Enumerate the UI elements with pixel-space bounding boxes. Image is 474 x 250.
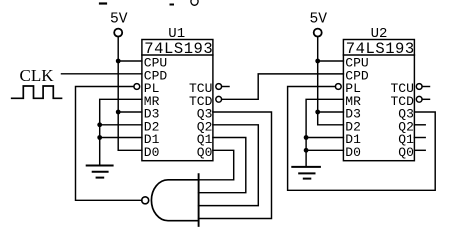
svg-text:Q0: Q0: [197, 145, 213, 160]
svg-text:D0: D0: [345, 145, 361, 160]
node 5V-CPU U1: [116, 59, 121, 64]
node 5V-D3 U2: [315, 110, 320, 115]
cropped text fragment g-loop: [191, 0, 198, 5]
node gnd-D1 U2: [304, 135, 309, 140]
TCD bubble U2: [416, 96, 422, 102]
wire D3 U1: [118, 111, 142, 113]
clock waveform: [12, 86, 62, 98]
wire PL U2 loop from Q3 U2: [288, 87, 436, 191]
U2 right pin labels: [390, 81, 414, 160]
wire D1 U1: [100, 137, 142, 139]
svg-text:U1: U1: [168, 26, 185, 42]
cropped text fragment dash: [100, 2, 106, 4]
chip U2 box: [343, 40, 414, 161]
U1 right pin labels: [189, 81, 213, 160]
svg-text:Q0: Q0: [398, 145, 414, 160]
wire 5V rail U2: [318, 37, 344, 125]
wire D3 U2: [318, 111, 344, 113]
wire Q1 U1 to NAND in2: [199, 138, 246, 193]
ground U2: [292, 167, 320, 179]
ground U1: [87, 166, 113, 178]
wire MR/gnd rail U2: [306, 99, 343, 166]
wire Q2 U1 to NAND in3: [199, 125, 259, 206]
chip U2 header line: [343, 54, 414, 56]
node gnd-D1 U1: [97, 135, 102, 140]
node gnd-D2 U1: [97, 122, 102, 127]
TCD bubble U1: [216, 96, 222, 102]
wire Q0 stub U2: [414, 149, 425, 151]
svg-text:D0: D0: [144, 145, 160, 160]
5V terminal U1: [114, 29, 122, 37]
wire Q2 stub U2: [414, 124, 425, 126]
wire TCU stub U2: [422, 86, 429, 88]
svg-text:5V: 5V: [310, 12, 328, 28]
wire Q3 U1 to NAND in4: [199, 112, 272, 219]
svg-text:5V: 5V: [110, 12, 128, 28]
wire CPU U2: [318, 60, 344, 62]
wire D1 U2: [306, 137, 343, 139]
wire TCD U1 to CPD U2: [222, 74, 344, 99]
cropped text fragment dot: [171, 4, 174, 6]
wire Q0 U1 to NAND in1: [199, 150, 234, 180]
PL bubble U1: [134, 84, 140, 90]
U1 left pin labels: [144, 56, 168, 160]
chip U1 header line: [142, 54, 213, 56]
NAND gate body: [151, 180, 198, 221]
node gnd-D0 U2: [304, 148, 309, 153]
wire CPU U1: [118, 60, 142, 62]
NAND input bar: [198, 174, 200, 226]
5V terminal U2: [314, 29, 322, 37]
svg-text:U2: U2: [371, 26, 388, 42]
TCU bubble U2: [416, 84, 422, 90]
TCU bubble U1: [216, 84, 222, 90]
U2 left pin labels: [345, 56, 369, 160]
wire Q1 stub U2: [414, 137, 425, 139]
svg-text:CLK: CLK: [20, 66, 55, 85]
NAND output bubble: [142, 197, 149, 204]
wire D2 U1: [100, 124, 142, 126]
wire D0 U2: [306, 149, 343, 151]
wire TCD stub U2: [422, 98, 429, 100]
node 5V-D3 U1: [116, 110, 121, 115]
wire CLK to CPD U1: [62, 73, 142, 75]
wire NAND out to PL U1: [76, 87, 142, 201]
node 5V-CPU U2: [315, 59, 320, 64]
wire MR/gnd rail U1: [100, 99, 142, 164]
wire 5V rail U1: [118, 37, 142, 151]
chip U1 box: [142, 40, 213, 161]
PL bubble U2: [335, 84, 341, 90]
wire TCU stub U1: [222, 86, 229, 88]
